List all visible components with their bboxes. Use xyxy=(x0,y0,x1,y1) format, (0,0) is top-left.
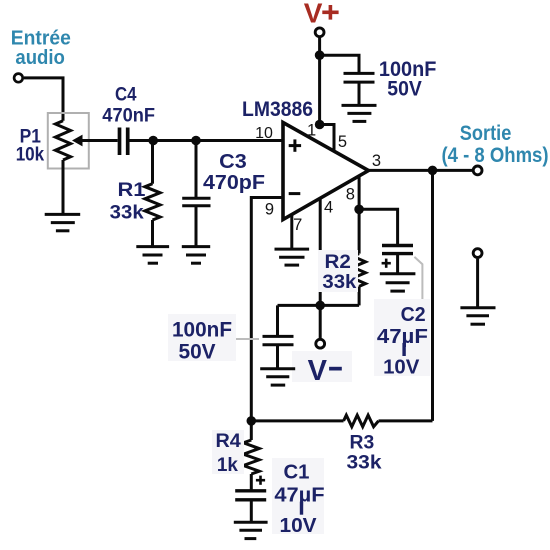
svg-text:C1: C1 xyxy=(284,460,310,483)
svg-text:C2: C2 xyxy=(401,303,426,326)
label V+ xyxy=(304,0,339,29)
svg-text:33k: 33k xyxy=(322,271,356,293)
svg-text:1k: 1k xyxy=(217,454,238,476)
svg-text:50V: 50V xyxy=(179,340,217,364)
label R4 1k xyxy=(212,430,244,476)
svg-text:8: 8 xyxy=(346,186,355,204)
svg-text:470pF: 470pF xyxy=(203,171,265,194)
svg-text:R3: R3 xyxy=(350,431,375,453)
ground 100nF (V+) xyxy=(342,105,377,121)
leader line C2 label xyxy=(414,257,422,301)
svg-text:Sortie: Sortie xyxy=(460,122,512,145)
wire V- rail horizontal xyxy=(278,304,360,307)
label C3 470pF xyxy=(203,150,265,194)
label Sortie (4 - 8 Ohms) xyxy=(442,122,549,167)
minus symbol inside op-amp xyxy=(289,192,301,195)
leader line 100nF label xyxy=(232,338,259,340)
svg-text:3: 3 xyxy=(372,152,381,170)
node R1 top xyxy=(148,136,158,146)
label P1 10k xyxy=(16,126,45,166)
label 100nF 50V (V-) xyxy=(168,314,236,364)
ground R1 xyxy=(136,247,169,264)
wire V+ to decoupling cap xyxy=(320,55,359,73)
wire input to pot xyxy=(24,78,63,121)
capacitor C4 xyxy=(120,128,128,156)
label R1 33k xyxy=(110,179,146,224)
wire pin 1 to pin 5 bracket xyxy=(320,125,334,152)
label Entrée audio xyxy=(11,28,71,70)
resistor R1 xyxy=(145,141,160,247)
input terminal xyxy=(14,74,23,83)
wire pot to ground xyxy=(62,160,65,214)
label C1 47uF 10V xyxy=(272,458,325,537)
svg-text:C3: C3 xyxy=(219,150,247,173)
wiper arrow of P1 xyxy=(72,135,118,147)
svg-text:LM3886: LM3886 xyxy=(242,97,313,121)
svg-text:V: V xyxy=(308,355,328,387)
svg-text:7: 7 xyxy=(293,216,302,234)
ground 100nF (V-) xyxy=(260,369,295,385)
wire C4 to op-amp input xyxy=(130,139,284,142)
wire right terminal to ground xyxy=(476,259,479,308)
svg-text:33k: 33k xyxy=(110,201,144,223)
node pin 1 xyxy=(315,120,325,130)
svg-text:10: 10 xyxy=(255,125,273,142)
svg-text:33k: 33k xyxy=(347,452,382,474)
wire node to V- terminal xyxy=(319,305,322,338)
node C3 top xyxy=(191,136,201,146)
resistor R2 xyxy=(353,209,366,305)
svg-text:470nF: 470nF xyxy=(102,104,155,126)
svg-text:50V: 50V xyxy=(387,77,422,100)
capacitor C3 xyxy=(182,141,210,247)
wire output down to R3 xyxy=(431,170,434,421)
ground right xyxy=(460,308,495,324)
label 100nF 50V (top) xyxy=(379,57,437,100)
svg-text:R2: R2 xyxy=(325,251,352,273)
svg-text:9: 9 xyxy=(265,201,274,219)
right ground terminal xyxy=(473,249,482,258)
capacitor 100nF (V-) xyxy=(263,305,294,368)
node pin 8 xyxy=(354,205,364,215)
node V- xyxy=(315,301,325,311)
wire pin 8 down xyxy=(358,177,361,209)
plus symbol inside op-amp xyxy=(289,139,301,151)
node feedback junction xyxy=(247,416,257,426)
node output xyxy=(428,166,438,176)
label V- xyxy=(292,351,352,387)
ground C1 xyxy=(234,522,268,538)
label C2 47uF 10V xyxy=(374,299,430,379)
svg-text:audio: audio xyxy=(15,47,65,69)
wire bottom left segment xyxy=(251,419,343,422)
capacitor C1 xyxy=(235,491,266,523)
node V+ xyxy=(315,50,325,60)
ground C3 xyxy=(182,247,210,264)
wire output pin 3 xyxy=(369,169,474,172)
V+ terminal xyxy=(315,28,324,37)
svg-text:47µF: 47µF xyxy=(274,484,324,507)
ground C2 xyxy=(380,274,416,291)
svg-text:R4: R4 xyxy=(216,430,241,452)
wire pin 9 feedback xyxy=(251,198,283,421)
svg-text:R1: R1 xyxy=(118,179,146,201)
plus sign C2 xyxy=(382,259,391,268)
svg-text:V: V xyxy=(304,0,323,29)
wire pin 8 to C2 xyxy=(359,209,398,244)
svg-text:10V: 10V xyxy=(383,356,420,379)
plus sign C1 xyxy=(256,476,265,485)
wire pin 4 down xyxy=(319,199,322,305)
capacitor 100nF (V+) xyxy=(344,73,375,105)
label R2 33k xyxy=(318,250,358,293)
resistor R3 xyxy=(344,415,379,427)
svg-text:(4 - 8 Ohms): (4 - 8 Ohms) xyxy=(442,144,549,167)
resistor R4 xyxy=(243,421,259,490)
capacitor C2 xyxy=(382,246,413,274)
svg-text:10V: 10V xyxy=(280,514,317,537)
wire bottom right segment xyxy=(379,419,433,422)
svg-text:4: 4 xyxy=(324,199,333,217)
ground pin 7 xyxy=(275,249,310,265)
wire pin 7 to ground xyxy=(290,216,293,250)
svg-text:5: 5 xyxy=(338,133,347,151)
output terminal xyxy=(473,166,482,175)
svg-text:10k: 10k xyxy=(16,144,45,166)
ground pot xyxy=(45,214,80,230)
potentiometer P1 xyxy=(48,113,89,169)
label C4 470nF xyxy=(102,84,155,127)
op-amp U1 LM3886 triangle xyxy=(283,123,369,220)
V- terminal xyxy=(316,339,325,348)
svg-text:100nF: 100nF xyxy=(172,318,232,342)
label R3 33k xyxy=(347,431,382,473)
wire V+ down to pin 1 xyxy=(318,38,321,125)
svg-text:C4: C4 xyxy=(115,84,137,106)
